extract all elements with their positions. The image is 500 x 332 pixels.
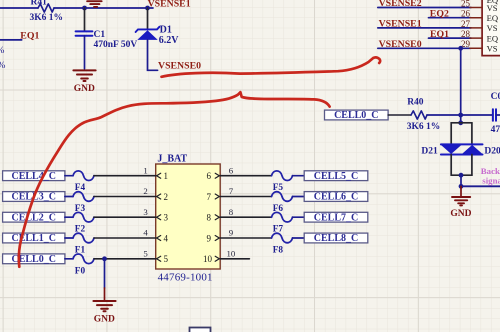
pin 9 — [207, 228, 234, 244]
port CELL6_C — [304, 192, 368, 203]
SECTION: top-right — [378, 0, 500, 115]
svg-text:EQ1: EQ1 — [20, 31, 39, 42]
wire C1 to GND — [84, 36, 86, 69]
svg-text:GND: GND — [450, 209, 471, 219]
capacitor C1 — [76, 30, 138, 50]
wire R41 to D1 branch — [54, 7, 153, 9]
pin 1 — [143, 165, 168, 181]
fuse F0 — [73, 254, 94, 276]
svg-text:VS: VS — [487, 23, 498, 33]
svg-text:CELL4_C: CELL4_C — [11, 171, 55, 182]
junction GND node — [459, 184, 464, 189]
wire fuse F0 to pin 5 — [94, 258, 156, 260]
wire EQ1 — [429, 37, 472, 39]
svg-text:D20: D20 — [484, 146, 500, 156]
svg-text:4: 4 — [164, 233, 169, 243]
pin 3 — [143, 207, 168, 223]
svg-text:6: 6 — [207, 171, 212, 181]
diode D21 — [421, 145, 482, 157]
wire EQ2 — [429, 17, 472, 19]
svg-text:%: % — [0, 61, 6, 71]
svg-text:EQ1: EQ1 — [430, 29, 449, 40]
svg-text:1: 1 — [164, 171, 169, 181]
pin 29 — [461, 39, 498, 53]
svg-text:28: 28 — [461, 29, 471, 39]
port CELL1_C — [3, 233, 65, 244]
IC U? body (right edge) — [482, 0, 500, 56]
wire VSENSE2 — [378, 7, 471, 9]
port CELL5_C — [304, 171, 368, 182]
svg-text:Back: Back — [481, 166, 500, 176]
svg-text:10: 10 — [227, 249, 236, 259]
pin 27 — [461, 19, 498, 33]
junction on VSENSE0 wire — [458, 46, 463, 51]
svg-text:C1: C1 — [94, 30, 106, 40]
zener diode D1 — [136, 24, 180, 46]
wire port to fuse F4 — [65, 175, 73, 177]
SECTION: annotations — [19, 57, 380, 266]
svg-text:signal: signal — [482, 176, 500, 186]
wire C1 top — [84, 8, 86, 31]
fuse F3 — [73, 192, 94, 214]
pin 28 — [461, 29, 499, 43]
SECTION: connector — [3, 153, 368, 332]
wire port to fuse F3 — [65, 196, 73, 198]
junction R40 node — [458, 113, 463, 118]
wire fuse F2 to pin 3 — [94, 216, 156, 218]
junction TVS top — [458, 120, 463, 125]
pin 2 — [143, 186, 168, 202]
wire port to fuse F0 — [65, 258, 73, 260]
svg-text:3: 3 — [143, 207, 148, 217]
wire VSENSE0 — [378, 47, 471, 49]
ground GND under C1 — [73, 70, 95, 94]
pin 4 — [143, 228, 168, 244]
svg-text:8: 8 — [229, 207, 234, 217]
wire TVS right leg lower — [471, 155, 473, 176]
svg-text:EQ: EQ — [487, 33, 499, 43]
wire TVS top rail — [451, 122, 472, 124]
wire TVS left leg lower — [450, 155, 452, 176]
red ink stroke upper — [162, 57, 381, 76]
resistor R41 — [30, 0, 64, 23]
wire TVS right leg — [471, 123, 473, 145]
wire fuse F7 to port — [293, 216, 305, 218]
fuse F8 — [272, 233, 293, 255]
svg-text:9: 9 — [229, 228, 234, 238]
junction C1 tap — [82, 6, 87, 11]
connector J_BAT body — [156, 153, 221, 283]
wire EQ1 — [0, 39, 22, 41]
svg-text:CELL7_C: CELL7_C — [314, 212, 358, 223]
diode D20 — [441, 144, 500, 156]
wire port to R40 — [388, 114, 411, 116]
fuse F2 — [73, 212, 94, 234]
svg-text:4: 4 — [143, 228, 148, 238]
pin 10 — [203, 249, 236, 265]
wire fuse F8 to port — [293, 237, 305, 239]
svg-text:VS: VS — [487, 3, 498, 13]
SECTION: middle-right — [325, 92, 500, 219]
fuse F7 — [272, 212, 293, 234]
svg-text:10: 10 — [203, 254, 213, 264]
junction TVS bottom — [459, 173, 464, 178]
port CELL7_C — [304, 212, 368, 223]
wire fuse F6 to port — [293, 196, 305, 198]
wire pin 9 to fuse F8 — [220, 237, 271, 239]
comment Back signal (clipped) — [481, 166, 500, 186]
svg-text:GND: GND — [74, 84, 95, 94]
fuse F5 — [272, 171, 293, 193]
pin 7 — [207, 186, 234, 202]
junction D1 tap — [145, 6, 150, 11]
svg-text:VSENSE0: VSENSE0 — [158, 61, 201, 72]
red ink stroke lower (long arc) — [19, 92, 330, 267]
svg-text:1: 1 — [143, 165, 147, 175]
ground GND (bottom-left) — [93, 301, 115, 324]
svg-text:EQ: EQ — [487, 13, 499, 23]
svg-text:VSENSE0: VSENSE0 — [379, 39, 422, 50]
svg-text:R40: R40 — [407, 98, 424, 108]
SECTION: top-left — [0, 0, 201, 94]
port CELL0_C — [325, 110, 389, 121]
svg-text:7: 7 — [229, 186, 234, 196]
wire pin 10 stub — [220, 258, 249, 260]
svg-text:VSENSE1: VSENSE1 — [148, 0, 191, 10]
capacitor C0 (right edge) — [491, 92, 500, 135]
pin 8 — [207, 207, 234, 223]
port CELL3_C — [3, 192, 65, 203]
svg-text:27: 27 — [461, 19, 471, 29]
pin 25 — [461, 0, 498, 13]
wire fuse F4 to pin 1 — [94, 175, 156, 177]
pin 6 — [207, 165, 234, 181]
wire VSENSE1 — [378, 27, 471, 29]
ground (cropped, above wire) — [87, 1, 101, 7]
wire down to GND — [104, 259, 106, 288]
wire port to fuse F2 — [65, 216, 73, 218]
svg-text:5: 5 — [164, 254, 169, 264]
svg-text:5: 5 — [143, 249, 148, 259]
svg-text:GND: GND — [94, 314, 115, 324]
svg-text:CELL0_C: CELL0_C — [334, 110, 378, 121]
fuse F1 — [73, 233, 94, 255]
svg-text:26: 26 — [461, 9, 471, 19]
svg-text:44769-1001: 44769-1001 — [158, 272, 213, 284]
wire down to GND node — [460, 175, 462, 186]
wire fuse F5 to port — [293, 175, 305, 177]
pin 26 — [461, 9, 499, 23]
svg-text:25: 25 — [461, 0, 471, 8]
wire left edge to R41 — [0, 7, 38, 9]
svg-text:R41: R41 — [31, 0, 48, 8]
wire fuse F3 to pin 2 — [94, 196, 156, 198]
svg-text:CELL2_C: CELL2_C — [11, 212, 55, 223]
svg-text:2: 2 — [143, 186, 147, 196]
port CELL2_C — [3, 212, 65, 223]
svg-text:CELL6_C: CELL6_C — [314, 192, 358, 203]
svg-text:2: 2 — [164, 192, 169, 202]
resistor R40 — [407, 98, 441, 132]
svg-text:VSENSE1: VSENSE1 — [379, 19, 422, 30]
fuse F4 — [73, 171, 94, 193]
wire pin 7 to fuse F6 — [220, 196, 271, 198]
ground GND (right) — [450, 197, 471, 219]
port CELL8_C — [304, 233, 368, 244]
wire node down to TVS loop — [460, 115, 462, 123]
svg-text:VSENSE2: VSENSE2 — [379, 0, 422, 9]
wire R40 to node and C0 — [427, 114, 493, 116]
svg-text:3: 3 — [164, 213, 169, 223]
wire pin 6 to fuse F5 — [220, 175, 271, 177]
svg-text:D1: D1 — [160, 24, 172, 35]
wire pin 8 to fuse F7 — [220, 216, 271, 218]
wire TVS bottom rail — [451, 174, 472, 176]
wire TVS left leg — [450, 123, 452, 145]
svg-text:F0: F0 — [75, 266, 86, 276]
probe box VB (bottom edge, cropped) — [190, 328, 211, 332]
svg-text:C0: C0 — [491, 92, 500, 102]
svg-text:CELL5_C: CELL5_C — [314, 171, 358, 182]
svg-text:7: 7 — [207, 192, 212, 202]
svg-text:3K6 1%: 3K6 1% — [407, 122, 441, 132]
svg-text:CELL8_C: CELL8_C — [314, 233, 358, 244]
wire down to R40 node — [460, 48, 462, 115]
svg-text:J_BAT: J_BAT — [157, 153, 187, 164]
wire GND stub — [460, 186, 462, 196]
pin 5 — [143, 249, 168, 265]
wire D1 to VSENSE0 stub — [148, 40, 158, 70]
svg-text:F8: F8 — [273, 246, 284, 256]
fuse F6 — [272, 192, 293, 214]
wire to right edge — [461, 185, 500, 187]
port CELL0_C (left) — [3, 254, 65, 265]
wire fuse F1 to pin 4 — [94, 237, 156, 239]
svg-text:CELL1_C: CELL1_C — [11, 233, 55, 244]
wire port to fuse F1 — [65, 237, 73, 239]
svg-text:%: % — [0, 46, 5, 56]
svg-text:3K6 1%: 3K6 1% — [30, 13, 64, 23]
svg-text:470nF 50V: 470nF 50V — [94, 40, 138, 50]
wire VSENSE1 to D1 — [147, 8, 149, 29]
svg-text:VS: VS — [487, 44, 498, 54]
svg-text:D21: D21 — [421, 146, 438, 156]
wire GND stub — [104, 288, 106, 300]
svg-text:6: 6 — [229, 165, 234, 175]
svg-text:9: 9 — [207, 233, 212, 243]
port CELL4_C — [3, 171, 65, 182]
svg-text:8: 8 — [207, 213, 212, 223]
svg-text:470: 470 — [491, 125, 500, 135]
svg-text:EQ2: EQ2 — [430, 8, 449, 19]
junction GND tap — [102, 256, 107, 261]
svg-text:6.2V: 6.2V — [159, 35, 180, 46]
